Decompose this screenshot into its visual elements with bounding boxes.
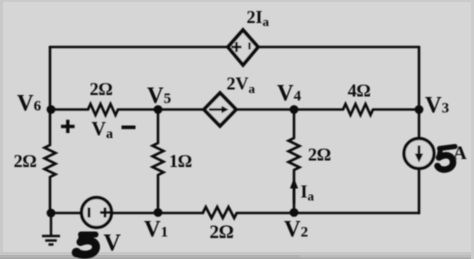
resistor 2ohm top-left <box>88 104 118 115</box>
wire V5 to 1ohm <box>157 110 160 144</box>
resistor 1ohm <box>153 143 164 175</box>
dep source diamond 2Va <box>204 93 236 126</box>
polarity - for Va <box>122 126 136 130</box>
node V4 <box>290 105 299 114</box>
wire mid rail R to diamond <box>118 108 204 111</box>
wire bottom rail node to source <box>51 212 82 215</box>
wire left vertical lower <box>49 177 52 213</box>
wire bottom rail R to right <box>237 212 419 215</box>
wire bottom rail source to R <box>112 212 203 215</box>
svg-text:2Ω: 2Ω <box>14 151 37 171</box>
wire 1ohm to V1 <box>157 175 160 213</box>
handwritten 5 of 5V <box>72 235 96 258</box>
arrow Ia <box>290 178 298 203</box>
node V1 <box>154 208 163 217</box>
resistor 2ohm middle <box>289 138 300 170</box>
resistor 4ohm <box>343 104 373 115</box>
wire 2ohm to V2 <box>293 170 296 213</box>
svg-text:V: V <box>104 231 122 257</box>
polarity + for Va <box>61 120 75 133</box>
svg-text:4Ω: 4Ω <box>348 81 371 101</box>
svg-text:2Ω: 2Ω <box>308 145 331 165</box>
resistor 2ohm left <box>45 145 56 177</box>
wire mid rail 4ohm to V3 <box>373 108 419 111</box>
resistor 2ohm bottom <box>203 207 237 218</box>
dep source diamond 2Ia <box>228 30 258 65</box>
node V5 <box>154 105 163 114</box>
wire mid rail diamond to 4ohm <box>236 108 343 111</box>
handwritten 5 of 5A <box>438 147 456 170</box>
ground <box>42 213 60 245</box>
node ground-left <box>47 209 56 218</box>
wire mid rail V6 to R <box>50 108 88 111</box>
wire right vertical upper <box>418 47 421 139</box>
svg-text:2Ω: 2Ω <box>209 222 234 243</box>
voltage source circle 5V <box>82 198 112 228</box>
svg-text:2Ω: 2Ω <box>90 79 113 99</box>
node V6 <box>47 105 56 114</box>
svg-text:1Ω: 1Ω <box>169 151 192 171</box>
wire top rail left <box>50 46 228 49</box>
wire V4 to 2ohm <box>293 110 296 139</box>
node V2 <box>290 208 299 217</box>
current source circle 5A <box>404 139 434 169</box>
wire top rail right <box>258 46 419 49</box>
wire right vertical lower <box>418 169 421 214</box>
wire left vertical upper <box>49 47 52 145</box>
node V3 <box>415 105 424 114</box>
